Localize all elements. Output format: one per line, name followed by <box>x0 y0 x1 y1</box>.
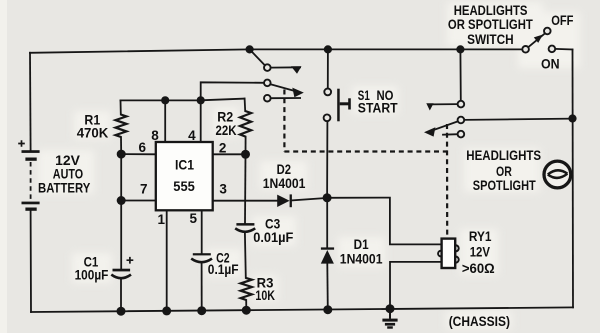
chassis ground symbol <box>389 309 391 319</box>
relay contact set 1 circle C1 <box>264 95 271 102</box>
svg-text:10K: 10K <box>255 287 275 303</box>
wire right rail <box>572 50 575 308</box>
wire R1 bottom lead <box>120 137 122 154</box>
svg-text:0.01µF: 0.01µF <box>253 229 294 245</box>
svg-text:OFF: OFF <box>551 12 574 28</box>
relay contact set 1 circle A1 <box>264 64 271 71</box>
svg-text:BATTERY: BATTERY <box>38 179 91 195</box>
relay contact set 2 circle C2 <box>458 131 465 138</box>
svg-text:470K: 470K <box>77 124 109 140</box>
resistor R2 22K zigzag <box>240 111 251 137</box>
wire left rail lower <box>30 211 32 312</box>
wire pin 1 drop <box>166 210 168 311</box>
pushbutton S1 contact circles <box>324 89 331 96</box>
wire node 2 column down to C3 <box>244 154 247 223</box>
wire node column R1/C1 <box>120 154 122 269</box>
svg-text:6: 6 <box>139 140 147 155</box>
node top rail / contact A1 <box>246 45 254 53</box>
svg-text:HEADLIGHTS: HEADLIGHTS <box>466 147 541 163</box>
capacitor C2 0.1uF plates <box>193 253 211 255</box>
headlight switch ON circle <box>549 46 556 53</box>
headlight switch common circle <box>522 46 529 53</box>
headlight switch OFF circle <box>544 28 551 35</box>
node ground rail chassis <box>386 304 395 313</box>
wire pin 3 <box>213 200 278 202</box>
svg-text:100µF: 100µF <box>75 266 109 282</box>
svg-text:>60Ω: >60Ω <box>462 261 495 276</box>
wire R1 top lead from vcc rail <box>120 100 122 114</box>
relay contact set 2 circle A2 <box>458 101 465 108</box>
svg-text:IC1: IC1 <box>175 156 194 172</box>
battery dashed middle link <box>30 162 32 201</box>
wire pin 5 drop to C2 <box>201 210 203 253</box>
IC1 555 timer box <box>156 142 213 210</box>
wire pin 6 <box>121 153 156 155</box>
capacitor C1 plus sign <box>127 257 134 264</box>
wire bottom rail <box>31 307 573 312</box>
svg-text:2: 2 <box>219 140 227 155</box>
wire top rail <box>30 49 522 52</box>
node pin 7 junction <box>117 196 126 205</box>
mechanical dashed link to relay coil <box>446 124 448 238</box>
node right rail / contact B2 <box>568 114 576 122</box>
relay contact set 2 circle B2 <box>458 117 465 124</box>
mechanical dashed link from contact set 1 <box>283 90 285 152</box>
svg-text:5: 5 <box>189 211 197 226</box>
svg-text:12V: 12V <box>470 245 490 260</box>
svg-text:555: 555 <box>173 178 195 194</box>
wire pin 2 <box>213 153 246 155</box>
svg-text:7: 7 <box>140 182 148 197</box>
wire C1 bottom lead <box>120 279 122 311</box>
capacitor C1 100uF plates <box>113 269 131 272</box>
relay RY1 coil body <box>442 239 456 268</box>
node pin 2 / R2 / C3 <box>241 150 250 159</box>
capacitor C3 0.01uF plates <box>236 223 254 226</box>
node ground rail R3 <box>242 306 251 315</box>
battery B1 12V plates <box>22 150 40 211</box>
svg-text:1: 1 <box>158 212 166 227</box>
relay RY1 coil bumps <box>453 245 459 251</box>
wire D1 bottom lead <box>326 264 329 310</box>
node D2 / S1 / D1 / relay <box>323 193 332 202</box>
wire C2 bottom lead <box>201 263 203 311</box>
svg-text:8: 8 <box>151 128 159 143</box>
pushbutton S1 bars <box>337 89 340 122</box>
svg-text:OR SPOTLIGHT: OR SPOTLIGHT <box>448 16 533 32</box>
wire left rail upper <box>29 53 32 151</box>
node ground rail D1 <box>323 305 332 314</box>
node top rail / S1 <box>324 45 332 53</box>
svg-text:0.1µF: 0.1µF <box>208 261 239 277</box>
svg-text:SWITCH: SWITCH <box>467 31 513 47</box>
wire contact A2 riser from top rail <box>459 49 461 100</box>
diode D2 1N4001 <box>277 195 289 207</box>
wire R2 bottom lead to node <box>245 137 247 155</box>
svg-text:22K: 22K <box>216 122 237 138</box>
wire S1 bottom to node D2 <box>326 121 328 198</box>
svg-text:1N4001: 1N4001 <box>340 251 383 267</box>
svg-text:4: 4 <box>188 128 196 143</box>
wire relay bottom terminal to ground <box>390 262 442 309</box>
headlight switch blade with arrow <box>528 33 545 47</box>
wire contact C2 stub <box>443 133 458 136</box>
contact A2 arm with down arrow <box>431 103 458 105</box>
relay contact set 1 circle B1 <box>264 80 271 87</box>
svg-text:3: 3 <box>219 182 227 197</box>
node ground rail C1 <box>117 307 126 316</box>
wire rail above IC (R1 to R2) <box>121 99 245 101</box>
node vcc rail pin 8 <box>161 96 169 104</box>
lamp headlights/spotlight bulb <box>544 161 571 188</box>
wire pin 8 riser <box>164 100 166 142</box>
contact B1 moving blade with arrow <box>271 84 298 92</box>
wire S1 riser <box>327 49 329 88</box>
wire node D2 to relay top terminal <box>327 198 442 245</box>
svg-text:1N4001: 1N4001 <box>263 175 306 191</box>
node ground rail C2 <box>197 306 206 315</box>
svg-text:(CHASSIS): (CHASSIS) <box>449 313 510 329</box>
svg-text:RY1: RY1 <box>469 229 492 244</box>
mechanical dashed link horizontal <box>284 150 447 152</box>
wire R2 top lead <box>244 99 247 111</box>
contact C1 arm <box>271 97 301 99</box>
wire pin 4 riser <box>200 100 202 142</box>
svg-text:START: START <box>358 100 398 115</box>
wire pin 4 riser upper to contact B1 <box>201 82 264 100</box>
node vcc rail pin 4 <box>197 96 205 104</box>
wire node D2 to D1 <box>326 198 328 248</box>
node ground rail pin 1 <box>162 306 171 315</box>
resistor R1 470K zigzag <box>116 115 127 138</box>
wire ON contact to right rail <box>555 48 572 51</box>
contact B2 moving blade with arrow <box>431 121 458 130</box>
wire R3 bottom lead <box>245 300 247 310</box>
battery plus sign <box>18 140 25 147</box>
svg-text:ON: ON <box>541 56 560 72</box>
wire D2 cathode to node <box>292 198 327 201</box>
wire C3 to R3 <box>244 233 247 278</box>
node top rail / contact A2 <box>456 45 464 53</box>
diode D1 1N4001 <box>321 247 334 249</box>
wire pin 7 <box>121 200 156 202</box>
resistor R3 10K zigzag <box>241 278 252 300</box>
wire contact B2 to right rail <box>464 119 572 120</box>
svg-text:SPOTLIGHT: SPOTLIGHT <box>473 177 536 193</box>
contact A1 arm with down arrow <box>271 66 301 68</box>
wire lead from top rail to contact A1 <box>250 49 265 65</box>
node pin 6 junction <box>117 150 126 159</box>
